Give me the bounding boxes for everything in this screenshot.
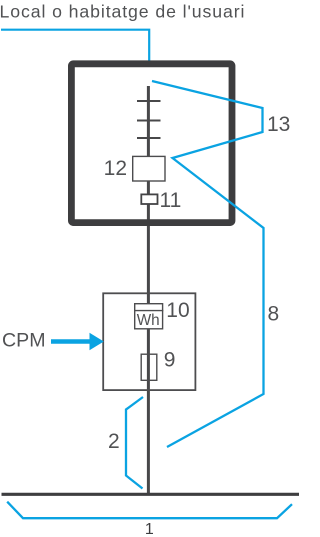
CPM arrow <box>51 339 91 343</box>
ground line (xarxa) <box>2 493 300 496</box>
svg-text:Wh: Wh <box>137 312 160 329</box>
wire main vertical line <box>147 86 150 494</box>
svg-text:2: 2 <box>108 430 120 453</box>
svg-text:13: 13 <box>267 113 290 136</box>
wire tick 1 <box>137 100 161 102</box>
callout line from title to house box <box>1 30 149 61</box>
CPM box <box>103 293 195 390</box>
svg-text:11: 11 <box>160 189 182 212</box>
bracket 2 <box>126 397 143 489</box>
fuse box 9 <box>141 354 157 380</box>
callout polyline 13 and 8 <box>152 81 264 447</box>
wire tick 3 <box>137 137 161 139</box>
bracket 1 <box>7 502 292 519</box>
svg-text:Local o habitatge de l'usuari: Local o habitatge de l'usuari <box>0 1 245 21</box>
house box (Local o habitatge) <box>71 64 232 223</box>
svg-text:10: 10 <box>166 299 189 322</box>
svg-text:9: 9 <box>164 349 176 372</box>
wire tick 2 <box>137 119 161 121</box>
svg-text:12: 12 <box>104 157 127 180</box>
meter box Wh (10) <box>135 304 163 329</box>
box 11 (ICP) <box>141 194 157 204</box>
svg-text:CPM: CPM <box>2 330 46 352</box>
breaker box 12 <box>133 156 165 181</box>
svg-text:8: 8 <box>268 303 280 326</box>
svg-text:1: 1 <box>145 521 154 537</box>
meter top strip line <box>134 310 163 312</box>
